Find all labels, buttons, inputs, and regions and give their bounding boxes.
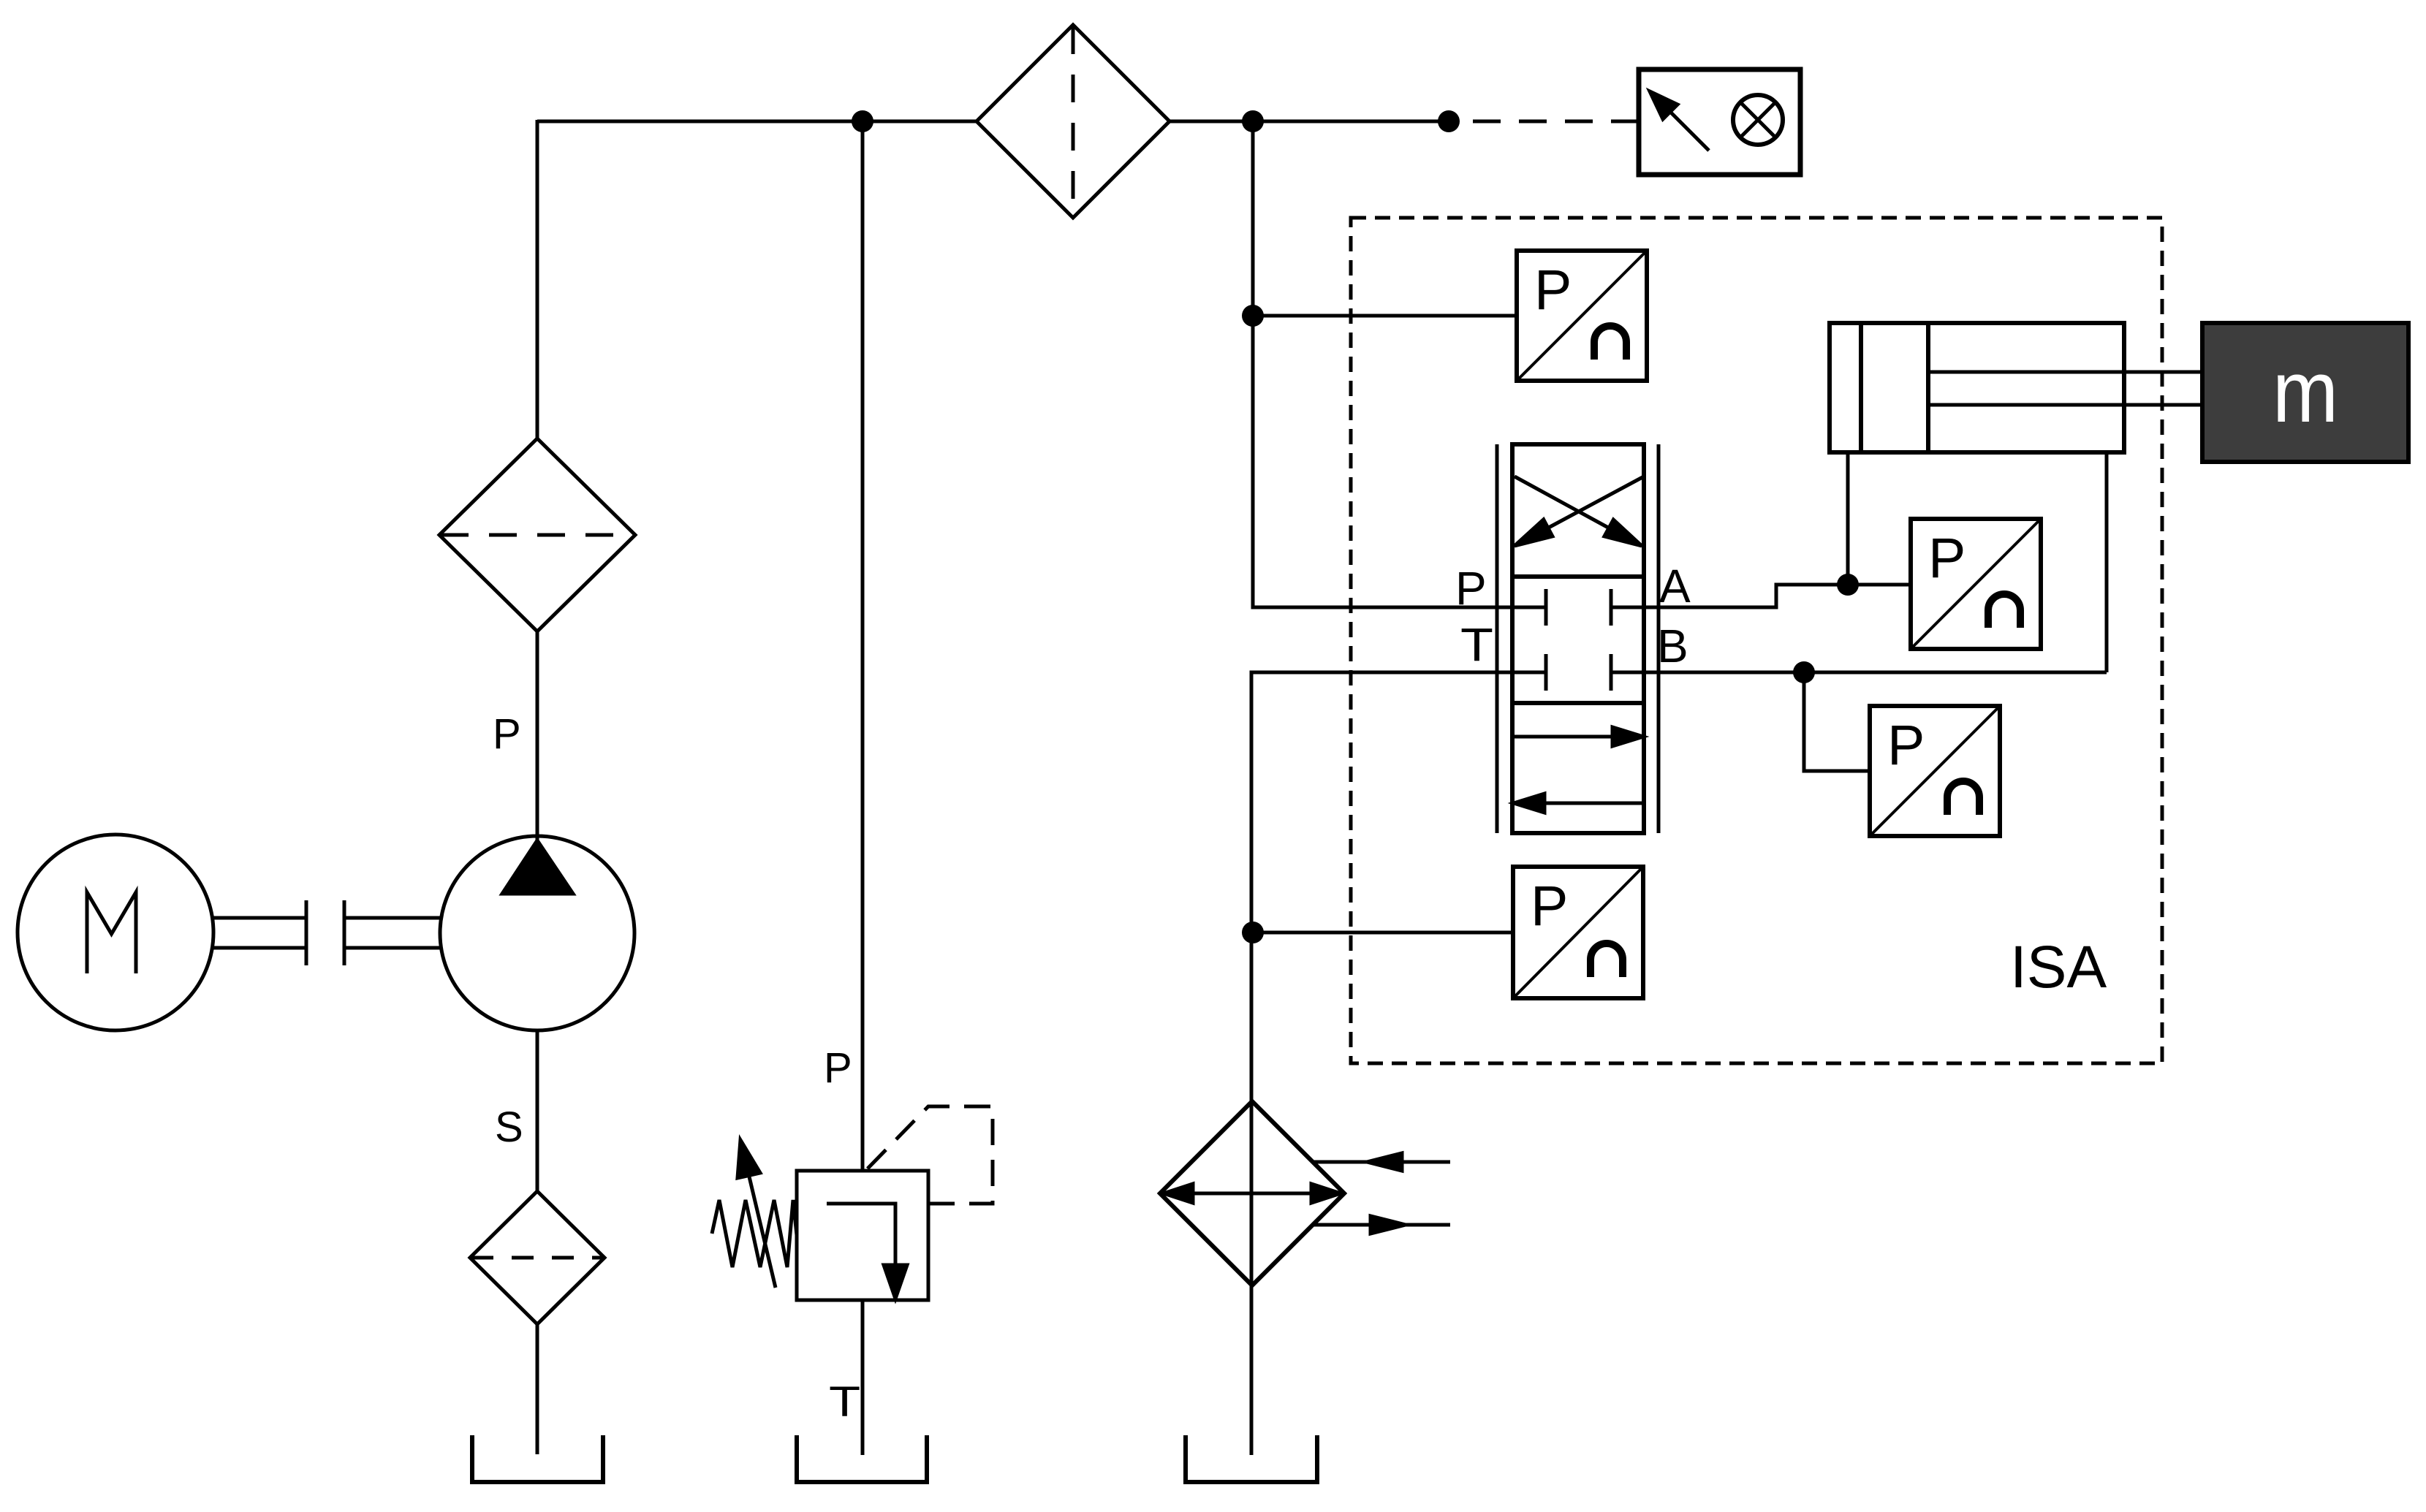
svg-text:T: T	[829, 1378, 860, 1425]
svg-text:P: P	[493, 710, 521, 758]
svg-text:B: B	[1657, 620, 1688, 672]
svg-text:P: P	[1534, 259, 1572, 322]
svg-text:m: m	[2273, 343, 2338, 441]
svg-text:P: P	[1531, 875, 1568, 938]
svg-text:T: T	[1460, 618, 1493, 670]
svg-text:S: S	[495, 1103, 523, 1151]
svg-text:A: A	[1659, 560, 1691, 612]
svg-text:P: P	[1928, 527, 1966, 590]
svg-text:ISA: ISA	[2010, 934, 2107, 1000]
svg-text:P: P	[824, 1044, 852, 1092]
svg-text:P: P	[1887, 714, 1925, 777]
svg-text:P: P	[1455, 562, 1487, 615]
